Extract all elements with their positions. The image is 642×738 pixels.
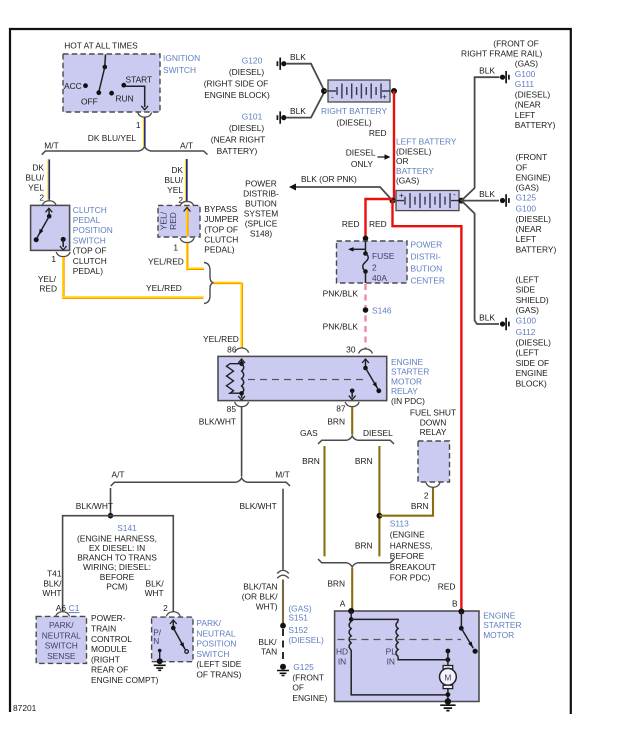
svg-text:RED: RED: [168, 212, 178, 230]
svg-text:RUN: RUN: [116, 94, 134, 104]
ground G101: [281, 115, 286, 120]
wire BLK/WHT relay 85 to A/T-M/T split: [241, 407, 243, 477]
svg-text:DK BLU/YEL: DK BLU/YEL: [88, 133, 137, 143]
svg-text:1: 1: [136, 120, 141, 130]
svg-text:DK: DK: [171, 165, 183, 175]
connector pin 2 fuel shut down relay: [426, 483, 440, 488]
splice S146: [363, 307, 369, 313]
splice S113: [377, 513, 383, 519]
svg-text:STARTER: STARTER: [391, 367, 429, 377]
starter motor armature: [443, 666, 453, 669]
svg-text:(NEAR: (NEAR: [515, 100, 541, 110]
connector pin 1 bypass jumper: [180, 238, 194, 243]
svg-text:40A: 40A: [372, 273, 387, 283]
relay coil: [242, 364, 244, 394]
svg-text:ENGINE BLOCK): ENGINE BLOCK): [204, 90, 270, 100]
svg-text:RELAY: RELAY: [391, 386, 418, 396]
svg-text:SYSTEM: SYSTEM: [244, 209, 278, 219]
wire DK BLU/YEL ignition to split: [144, 118, 146, 147]
wire BLK (OR PNK) to power distribution system: [295, 187, 393, 201]
svg-text:BLK (OR PNK): BLK (OR PNK): [301, 174, 357, 184]
svg-text:1: 1: [51, 254, 56, 264]
svg-text:C1: C1: [69, 603, 80, 613]
svg-text:BRN: BRN: [302, 456, 320, 466]
svg-text:G125: G125: [516, 193, 537, 203]
svg-text:ENGINE): ENGINE): [516, 172, 551, 182]
wire RED branch to fuse: [366, 199, 393, 236]
svg-text:S113: S113: [390, 519, 409, 529]
svg-text:DISTRIB-: DISTRIB-: [243, 189, 279, 199]
svg-text:BRN: BRN: [327, 578, 345, 588]
svg-text:ENGINE): ENGINE): [292, 693, 327, 703]
ground G120: [281, 61, 286, 66]
svg-text:YEL: YEL: [167, 185, 183, 195]
svg-text:(NEAR RIGHT: (NEAR RIGHT: [211, 135, 265, 145]
wire DK BLU/YEL M/T branch: [48, 159, 50, 199]
svg-text:A/T: A/T: [111, 470, 124, 480]
svg-text:IGNITION: IGNITION: [163, 53, 200, 63]
svg-text:G100: G100: [515, 69, 536, 79]
svg-text:RIGHT BATTERY: RIGHT BATTERY: [321, 106, 387, 116]
svg-text:RED: RED: [369, 128, 387, 138]
svg-text:PNK/BLK: PNK/BLK: [323, 322, 359, 332]
svg-text:A: A: [340, 599, 346, 609]
wire PNK/BLK fuse to relay pin 30: [364, 284, 366, 349]
wire BRN S113 to fuel shut down relay: [379, 488, 433, 516]
svg-text:G112: G112: [516, 327, 536, 337]
svg-text:BLK/WHT: BLK/WHT: [199, 417, 236, 427]
svg-text:G120: G120: [242, 56, 263, 66]
fuel shut down relay: [418, 441, 450, 482]
svg-text:WHT): WHT): [256, 602, 278, 612]
svg-text:WHT: WHT: [42, 588, 61, 598]
svg-text:CLUTCH: CLUTCH: [204, 235, 238, 245]
svg-text:HARNESS,: HARNESS,: [390, 540, 433, 550]
right battery: [328, 80, 390, 102]
svg-text:ENGINE COMPT): ENGINE COMPT): [91, 675, 159, 685]
svg-text:CENTER: CENTER: [411, 276, 445, 286]
splice S151/S152: [280, 623, 286, 629]
svg-text:TRAIN: TRAIN: [91, 624, 116, 634]
svg-text:IN: IN: [387, 657, 395, 667]
svg-text:BUTION: BUTION: [245, 199, 277, 209]
svg-text:BLK: BLK: [290, 106, 306, 116]
starter internal dashed link: [338, 639, 462, 641]
svg-text:STARTER: STARTER: [483, 620, 521, 630]
svg-text:SENSE: SENSE: [47, 651, 76, 661]
svg-text:(IN PDC): (IN PDC): [391, 396, 425, 406]
park/neutral switch sense (PCM input): [36, 616, 86, 663]
svg-text:(DIESEL): (DIESEL): [516, 214, 552, 224]
svg-text:MOTOR: MOTOR: [483, 630, 514, 640]
connector pin 2 clutch switch: [42, 201, 56, 206]
svg-text:BLK/: BLK/: [43, 578, 62, 588]
svg-text:BLU/: BLU/: [25, 173, 44, 183]
svg-text:S148): S148): [250, 229, 273, 239]
svg-text:DOWN: DOWN: [420, 417, 447, 427]
ground starter motor: [445, 698, 451, 704]
connector A6-C1 PCM: [56, 612, 70, 617]
svg-text:2: 2: [424, 490, 429, 500]
svg-text:JUMPER: JUMPER: [204, 214, 238, 224]
svg-text:SIDE OF: SIDE OF: [516, 358, 550, 368]
svg-text:RED: RED: [369, 219, 387, 229]
ignition switch: [63, 54, 160, 112]
svg-text:RED: RED: [438, 581, 456, 591]
svg-text:YEL: YEL: [28, 183, 44, 193]
wire BRN relay 87 down: [351, 407, 353, 435]
svg-text:BRANCH TO TRANS: BRANCH TO TRANS: [77, 553, 157, 563]
svg-text:PARK/: PARK/: [49, 620, 74, 630]
wire BLK/WHT S141 to PCM: [63, 516, 111, 611]
node fuse feed: [363, 236, 369, 242]
arrow feed to other circuits: [352, 248, 366, 250]
connector pin 2 bypass jumper: [180, 201, 194, 206]
svg-text:(SPLICE: (SPLICE: [245, 219, 278, 229]
svg-text:SIDE: SIDE: [516, 285, 536, 295]
wire YEL/RED to relay pin 86: [214, 282, 242, 284]
svg-text:87: 87: [336, 404, 346, 414]
node left battery negative: [458, 198, 464, 204]
svg-text:PARK/: PARK/: [196, 618, 221, 628]
harness merge to starter: [318, 559, 394, 567]
svg-text:86: 86: [227, 345, 237, 355]
svg-text:RELAY: RELAY: [420, 427, 447, 437]
svg-text:BRN: BRN: [355, 456, 373, 466]
wire BRN diesel branch: [378, 446, 380, 556]
svg-text:BEFORE: BEFORE: [390, 551, 425, 561]
svg-text:POWER: POWER: [411, 240, 443, 250]
svg-text:G100: G100: [516, 204, 537, 214]
svg-text:FUSE: FUSE: [372, 251, 395, 261]
svg-text:POWER: POWER: [245, 179, 277, 189]
svg-text:DIESEL: DIESEL: [363, 428, 393, 438]
svg-text:GAS: GAS: [300, 428, 318, 438]
connector pin 2 park/neutral position switch: [166, 612, 180, 617]
svg-text:(LEFT: (LEFT: [516, 274, 539, 284]
svg-text:PNK/BLK: PNK/BLK: [323, 289, 359, 299]
node right battery positive: [391, 88, 397, 94]
svg-text:BLK/TAN: BLK/TAN: [243, 582, 277, 592]
svg-text:ACC: ACC: [64, 81, 82, 91]
svg-text:BLK: BLK: [290, 52, 306, 62]
connector pin 1 ignition: [138, 112, 152, 117]
svg-text:G101: G101: [242, 112, 263, 122]
harness split A/T-M/T: [111, 478, 290, 486]
svg-text:BUTION: BUTION: [411, 264, 443, 274]
node terminal B: [458, 609, 464, 615]
svg-text:NEUTRAL: NEUTRAL: [42, 630, 81, 640]
svg-text:(DIESEL): (DIESEL): [336, 118, 372, 128]
svg-text:FOR PDC): FOR PDC): [390, 573, 431, 583]
starter switch: [460, 612, 462, 629]
left battery: [396, 191, 459, 211]
svg-text:(DIESEL): (DIESEL): [515, 89, 551, 99]
svg-text:(GAS): (GAS): [516, 183, 539, 193]
svg-text:LEFT BATTERY: LEFT BATTERY: [396, 137, 457, 147]
svg-text:POSITION: POSITION: [196, 639, 236, 649]
svg-text:SWITCH: SWITCH: [73, 235, 106, 245]
svg-text:(RIGHT: (RIGHT: [91, 654, 120, 664]
svg-text:TAN: TAN: [261, 647, 277, 657]
svg-text:T41: T41: [47, 569, 62, 579]
svg-text:POSITION: POSITION: [73, 225, 113, 235]
svg-text:HD: HD: [336, 647, 348, 657]
svg-text:BRN: BRN: [355, 540, 373, 550]
svg-text:BLU/: BLU/: [164, 175, 183, 185]
wire BLK G101 to right battery: [287, 93, 325, 118]
harness split M/T-A/T: [42, 147, 208, 155]
svg-text:SWITCH: SWITCH: [196, 649, 229, 659]
wire BLK G120 to right battery: [287, 64, 325, 90]
svg-text:(FRONT: (FRONT: [292, 673, 324, 683]
svg-text:B: B: [452, 599, 458, 609]
bypass jumper: [158, 205, 200, 237]
relay switch: [362, 359, 369, 363]
svg-text:WIRING; DIESEL:: WIRING; DIESEL:: [83, 562, 151, 572]
svg-text:(ENGINE: (ENGINE: [390, 530, 425, 540]
ground G125/G100: [500, 198, 505, 203]
relay internal dashed link: [248, 379, 367, 381]
svg-text:BLK/WHT: BLK/WHT: [76, 501, 113, 511]
svg-text:YEL/: YEL/: [38, 274, 57, 284]
svg-text:LEFT: LEFT: [515, 110, 535, 120]
svg-text:NEUTRAL: NEUTRAL: [196, 628, 235, 638]
svg-text:M/T: M/T: [275, 470, 289, 480]
svg-text:ENGINE: ENGINE: [516, 368, 549, 378]
svg-text:BLK/: BLK/: [258, 637, 277, 647]
wire BLK/TAN splice to ground G125: [282, 629, 284, 663]
svg-text:DISTRI-: DISTRI-: [411, 252, 441, 262]
wire junction brace YEL/RED merge: [204, 263, 214, 304]
svg-text:BRN: BRN: [411, 501, 429, 511]
svg-text:BRN: BRN: [327, 416, 345, 426]
wire BLK/TAN to splice S151/S152: [282, 580, 284, 625]
starter hold-in coil: [350, 611, 352, 619]
svg-text:RED: RED: [342, 219, 360, 229]
engine starter motor relay: [218, 356, 387, 400]
connector pin 87 relay: [345, 402, 359, 407]
inline connector: [277, 570, 289, 578]
wire RED left battery to starter motor B: [393, 201, 462, 610]
svg-text:YEL/: YEL/: [159, 211, 169, 230]
svg-text:-: -: [453, 189, 456, 199]
svg-text:A/T: A/T: [180, 141, 193, 151]
svg-text:PEDAL): PEDAL): [204, 245, 234, 255]
svg-text:(OR BLK/: (OR BLK/: [242, 592, 279, 602]
svg-text:PL: PL: [386, 647, 397, 657]
ground G125 front of engine: [280, 664, 286, 670]
svg-text:START: START: [126, 75, 153, 85]
svg-text:PEDAL): PEDAL): [73, 266, 103, 276]
splice S141: [108, 513, 114, 519]
svg-text:DK: DK: [32, 162, 44, 172]
svg-text:BLK/: BLK/: [146, 578, 165, 588]
svg-text:(DIESEL): (DIESEL): [396, 146, 432, 156]
svg-text:2: 2: [39, 193, 44, 203]
svg-text:BATTERY): BATTERY): [515, 120, 556, 130]
engine starter motor: [335, 611, 479, 702]
svg-text:RIGHT FRAME RAIL): RIGHT FRAME RAIL): [461, 48, 542, 58]
svg-text:MODULE: MODULE: [91, 644, 127, 654]
ground inside park/neutral switch: [158, 649, 162, 653]
svg-text:SWITCH: SWITCH: [163, 65, 196, 75]
svg-text:(GAS): (GAS): [516, 305, 539, 315]
svg-text:HOT AT ALL TIMES: HOT AT ALL TIMES: [64, 41, 138, 51]
svg-text:BREAKOUT: BREAKOUT: [390, 562, 436, 572]
svg-text:(DIESEL): (DIESEL): [288, 635, 324, 645]
svg-text:G100: G100: [516, 315, 537, 325]
wire YEL/RED from bypass jumper: [186, 243, 188, 268]
svg-text:BYPASS: BYPASS: [204, 204, 237, 214]
park/neutral position switch: [152, 617, 193, 662]
svg-text:ENGINE: ENGINE: [391, 357, 424, 367]
svg-text:2: 2: [372, 263, 377, 273]
svg-text:(RIGHT SIDE OF: (RIGHT SIDE OF: [204, 79, 269, 89]
svg-text:(LEFT SIDE: (LEFT SIDE: [196, 659, 241, 669]
svg-text:CLUTCH: CLUTCH: [73, 205, 107, 215]
svg-text:DIESEL: DIESEL: [346, 148, 376, 158]
svg-text:(GAS): (GAS): [515, 59, 538, 69]
svg-text:ONLY: ONLY: [351, 159, 374, 169]
svg-text:BLOCK): BLOCK): [516, 378, 547, 388]
ground G100/G112: [500, 321, 505, 326]
svg-text:(GAS): (GAS): [396, 176, 419, 186]
svg-text:+: +: [382, 92, 387, 102]
svg-text:85: 85: [227, 404, 237, 414]
harness split GAS-DIESEL: [318, 436, 394, 444]
svg-text:N: N: [153, 636, 159, 646]
wire BLK left battery to grounds: [461, 77, 499, 324]
connector pin 86 relay: [235, 348, 249, 353]
svg-text:(NEAR: (NEAR: [516, 224, 542, 234]
svg-text:(LEFT: (LEFT: [516, 348, 539, 358]
svg-text:OF: OF: [516, 162, 528, 172]
svg-text:CLUTCH: CLUTCH: [73, 256, 107, 266]
svg-text:FUEL SHUT: FUEL SHUT: [410, 408, 456, 418]
wire BLK/WHT to splice S141: [110, 488, 112, 516]
svg-text:RED: RED: [39, 284, 57, 294]
starter pull-in coil: [351, 619, 398, 621]
svg-text:BLK: BLK: [479, 189, 495, 199]
svg-text:PEDAL: PEDAL: [73, 215, 101, 225]
svg-text:WHT: WHT: [145, 588, 164, 598]
svg-text:(DIESEL): (DIESEL): [516, 337, 552, 347]
wire BRN gas branch: [323, 446, 325, 556]
svg-text:IN: IN: [338, 657, 346, 667]
fuse element: [363, 254, 369, 272]
svg-text:(ENGINE HARNESS,: (ENGINE HARNESS,: [77, 533, 157, 543]
svg-text:-: -: [331, 92, 334, 102]
node left battery positive: [390, 198, 396, 204]
wire START to pin 1: [126, 86, 145, 107]
svg-text:PCM): PCM): [106, 581, 128, 591]
svg-text:87201: 87201: [13, 703, 37, 713]
svg-text:(FRONT OF: (FRONT OF: [493, 39, 538, 49]
svg-text:BLK/WHT: BLK/WHT: [239, 501, 276, 511]
svg-text:SWITCH: SWITCH: [45, 641, 78, 651]
svg-text:BLK: BLK: [479, 66, 495, 76]
svg-text:BATTERY: BATTERY: [396, 166, 434, 176]
svg-text:CONTROL: CONTROL: [91, 634, 132, 644]
svg-text:BATTERY): BATTERY): [217, 146, 258, 156]
svg-text:(TOP OF: (TOP OF: [73, 246, 107, 256]
svg-text:(FRONT: (FRONT: [516, 152, 548, 162]
connector pin 30 relay: [359, 349, 373, 354]
svg-text:G111: G111: [515, 79, 535, 89]
wire BLK/WHT M/T branch: [282, 489, 284, 570]
svg-text:BLK: BLK: [479, 312, 495, 322]
node right battery negative: [321, 88, 327, 94]
svg-text:SHIELD): SHIELD): [516, 295, 549, 305]
svg-text:YEL/RED: YEL/RED: [203, 334, 239, 344]
clutch pedal position switch: [31, 205, 70, 250]
svg-text:+: +: [399, 190, 404, 200]
svg-text:OR: OR: [396, 156, 409, 166]
svg-text:(DIESEL): (DIESEL): [229, 67, 265, 77]
svg-text:OF TRANS): OF TRANS): [196, 670, 241, 680]
svg-text:2: 2: [163, 603, 168, 613]
svg-text:OFF: OFF: [81, 97, 98, 107]
svg-text:(TOP OF: (TOP OF: [204, 224, 238, 234]
wire BRN to starter motor A: [351, 568, 353, 610]
svg-text:S146: S146: [372, 306, 392, 316]
svg-text:YEL/RED: YEL/RED: [146, 283, 182, 293]
wire BLK/WHT S141 to park/neutral position switch: [111, 516, 174, 612]
svg-text:M: M: [444, 673, 451, 683]
svg-text:ENGINE: ENGINE: [483, 611, 516, 621]
svg-text:BATTERY): BATTERY): [516, 245, 557, 255]
wire RED right battery to left battery: [393, 91, 395, 199]
ground G100/G111: [500, 75, 505, 80]
svg-text:M/T: M/T: [44, 141, 58, 151]
svg-text:MOTOR: MOTOR: [391, 376, 422, 386]
svg-text:1: 1: [173, 243, 178, 253]
svg-text:EX DIESEL: IN: EX DIESEL: IN: [89, 543, 145, 553]
wire DK BLU/YEL A/T branch: [186, 159, 188, 202]
svg-text:(DIESEL): (DIESEL): [229, 123, 265, 133]
svg-text:REAR OF: REAR OF: [91, 665, 128, 675]
svg-text:OF: OF: [292, 683, 304, 693]
fuse 2 40A in power distribution center: [337, 241, 408, 283]
wire BLK left battery to ground G125/G100: [461, 200, 499, 202]
svg-text:G125: G125: [293, 662, 314, 672]
svg-text:S152: S152: [288, 625, 308, 635]
svg-text:LEFT: LEFT: [516, 234, 536, 244]
svg-text:30: 30: [346, 345, 356, 355]
starter contact node: [446, 649, 451, 654]
svg-text:POWER-: POWER-: [91, 613, 126, 623]
svg-text:S141: S141: [117, 523, 137, 533]
connector pin 85 relay: [235, 402, 249, 407]
connector pin 1 clutch switch: [56, 252, 70, 257]
svg-text:BEFORE: BEFORE: [100, 572, 135, 582]
node terminal A: [348, 608, 354, 614]
svg-text:S151: S151: [288, 613, 308, 623]
svg-text:YEL/RED: YEL/RED: [148, 257, 184, 267]
